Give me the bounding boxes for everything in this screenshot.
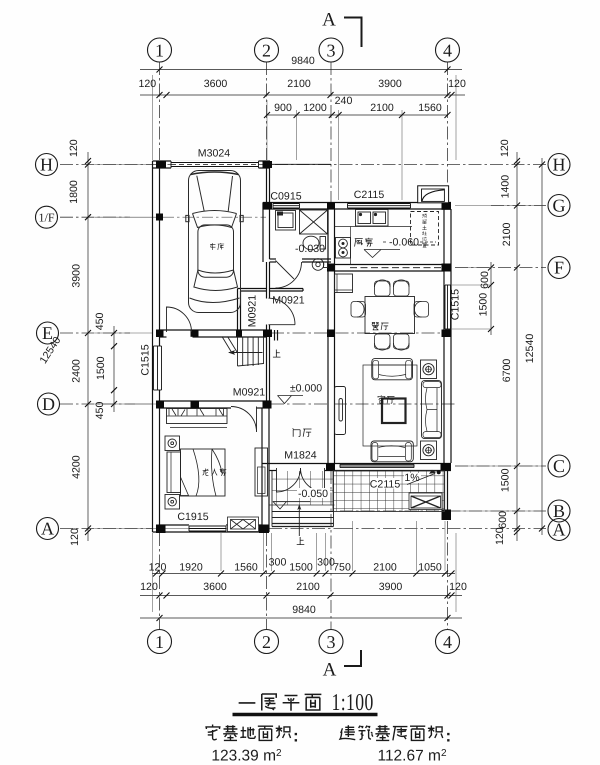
svg-text:G: G: [553, 196, 566, 216]
svg-text:1500: 1500: [478, 293, 490, 317]
svg-text:1560: 1560: [418, 102, 442, 114]
svg-text:600: 600: [497, 511, 509, 529]
svg-text:M1824: M1824: [284, 450, 316, 462]
svg-text:C0915: C0915: [270, 191, 301, 203]
svg-text::: :: [446, 727, 452, 746]
svg-text:M3024: M3024: [198, 148, 230, 160]
svg-text:1920: 1920: [179, 562, 203, 574]
svg-text:H: H: [553, 155, 566, 175]
svg-text:M0921: M0921: [247, 295, 259, 327]
svg-text:2400: 2400: [71, 359, 83, 383]
svg-text:1400: 1400: [500, 175, 512, 199]
svg-text:A: A: [322, 10, 336, 31]
svg-text:2100: 2100: [287, 78, 311, 90]
svg-text:120: 120: [149, 562, 167, 574]
svg-text:C2115: C2115: [370, 479, 401, 491]
svg-text:1560: 1560: [234, 562, 258, 574]
svg-text:F: F: [554, 258, 564, 278]
svg-text:-0.030: -0.030: [295, 243, 325, 255]
svg-text:A: A: [553, 520, 566, 540]
svg-text:120: 120: [449, 581, 467, 593]
svg-text:M0921: M0921: [272, 295, 304, 307]
svg-text:9840: 9840: [292, 604, 316, 616]
svg-text:750: 750: [333, 562, 351, 574]
svg-text:4: 4: [443, 41, 452, 61]
svg-text:120: 120: [68, 139, 80, 157]
svg-text:120: 120: [448, 78, 466, 90]
svg-text:12540: 12540: [524, 334, 536, 364]
svg-text:2: 2: [262, 632, 271, 652]
svg-text:A: A: [41, 519, 54, 539]
svg-text:C: C: [553, 456, 565, 476]
svg-text:C2115: C2115: [354, 189, 385, 201]
svg-text:-0.050: -0.050: [298, 488, 328, 500]
svg-text:1800: 1800: [68, 180, 80, 204]
svg-text:123.39 m2: 123.39 m2: [211, 748, 282, 765]
svg-text:3900: 3900: [71, 264, 83, 288]
svg-text:C1515: C1515: [140, 344, 152, 375]
svg-text:112.67 m2: 112.67 m2: [377, 748, 446, 765]
svg-text:2100: 2100: [296, 581, 320, 593]
svg-text:450: 450: [94, 312, 106, 330]
svg-text:900: 900: [274, 102, 292, 114]
svg-text:120: 120: [494, 527, 506, 545]
svg-text:300: 300: [269, 557, 287, 569]
svg-text:1500: 1500: [289, 562, 313, 574]
svg-text:C1515: C1515: [450, 289, 462, 320]
svg-text:1/F: 1/F: [38, 211, 54, 225]
svg-text:3600: 3600: [203, 581, 227, 593]
svg-text:A: A: [323, 660, 337, 681]
svg-text:1: 1: [155, 41, 164, 61]
svg-text:M0921: M0921: [233, 387, 265, 399]
svg-text:3900: 3900: [378, 78, 402, 90]
svg-text:3: 3: [327, 632, 336, 652]
svg-text:600: 600: [479, 271, 491, 289]
svg-text:2100: 2100: [373, 562, 397, 574]
svg-text:3: 3: [327, 41, 336, 61]
svg-text:H: H: [40, 155, 53, 175]
svg-text:1500: 1500: [95, 356, 107, 380]
svg-text:1: 1: [155, 632, 164, 652]
svg-text:6700: 6700: [501, 359, 513, 383]
svg-text:C1915: C1915: [177, 511, 208, 523]
svg-text:2100: 2100: [501, 223, 513, 247]
svg-text:2100: 2100: [370, 102, 394, 114]
svg-text::: :: [293, 727, 299, 746]
svg-text:D: D: [42, 394, 55, 414]
svg-text:120: 120: [499, 139, 511, 157]
svg-text:4: 4: [443, 632, 452, 652]
svg-text:2: 2: [262, 41, 271, 61]
svg-text:1200: 1200: [303, 102, 327, 114]
svg-text:120: 120: [140, 581, 158, 593]
svg-text:1050: 1050: [418, 562, 442, 574]
svg-text:B: B: [553, 501, 565, 521]
svg-text:1:100: 1:100: [332, 688, 374, 716]
svg-text:450: 450: [94, 402, 106, 420]
svg-text:1500: 1500: [500, 468, 512, 492]
svg-text:3900: 3900: [379, 581, 403, 593]
svg-text:120: 120: [138, 78, 156, 90]
svg-text:4200: 4200: [71, 455, 83, 479]
svg-text:-0.060: -0.060: [389, 237, 419, 249]
svg-text:120: 120: [69, 528, 81, 546]
svg-text:3600: 3600: [204, 78, 228, 90]
svg-text:240: 240: [335, 95, 353, 107]
svg-text:±0.000: ±0.000: [290, 383, 322, 395]
svg-text:9840: 9840: [291, 55, 315, 67]
